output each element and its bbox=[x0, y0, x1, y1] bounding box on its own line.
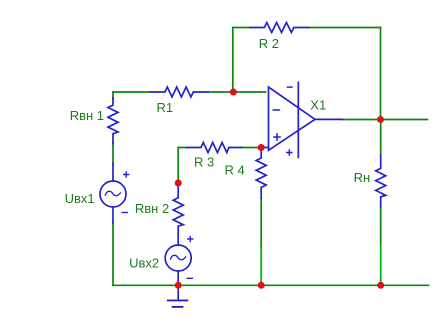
resistor Rn bbox=[376, 155, 386, 208]
polarity minus of Uvx2 bbox=[187, 277, 192, 279]
resistor R2 bbox=[251, 23, 309, 33]
wire bright segment above bottom rail at Rn branch bbox=[380, 246, 382, 285]
op-amp power bar bbox=[297, 82, 299, 157]
svg-text:Uвх2: Uвх2 bbox=[129, 256, 159, 271]
wire below Uvx2 to bottom rail bbox=[177, 282, 179, 286]
svg-text:R 2: R 2 bbox=[259, 36, 279, 51]
wire R1 left bbox=[113, 91, 150, 93]
node inverting input junction bbox=[230, 89, 237, 96]
wire left vertical of feedback loop bbox=[232, 28, 234, 93]
wire bright segment above bottom rail at R4 branch bbox=[261, 246, 381, 285]
wire bottom rail bbox=[113, 284, 429, 286]
source Uvx1 bbox=[100, 164, 129, 224]
polarity minus of Uvx1 bbox=[122, 212, 127, 214]
op-amp X1 bbox=[261, 82, 342, 157]
wire left branch top bbox=[112, 92, 114, 98]
op-amp top minus power label bbox=[288, 86, 292, 88]
polarity plus of Uvx1 bbox=[124, 172, 129, 177]
svg-text:Uвх1: Uвх1 bbox=[65, 191, 95, 206]
wire output node down to Rn bbox=[380, 120, 382, 156]
resistor R3 bbox=[187, 143, 242, 153]
op-amp non-inverting input stub bbox=[261, 147, 268, 149]
svg-text:R 4: R 4 bbox=[225, 163, 245, 178]
wire between Rvn1 and Uvx1 bbox=[112, 144, 114, 164]
svg-text:Rвн 1: Rвн 1 bbox=[70, 108, 104, 123]
source Uvx2 bbox=[165, 237, 193, 282]
op-amp minus input label bbox=[273, 109, 279, 111]
wire output stub to the right bbox=[381, 119, 428, 121]
wire top rail right segment bbox=[309, 27, 381, 29]
ground bbox=[168, 285, 187, 307]
resistor R1 bbox=[150, 87, 208, 97]
node Rn bottom junction bbox=[377, 282, 384, 289]
wire right vertical from top rail to output node bbox=[380, 28, 382, 120]
node ground junction bbox=[175, 282, 182, 289]
node non-inverting input junction bbox=[258, 144, 265, 151]
wire top rail left segment bbox=[113, 28, 429, 286]
wire below R4 bbox=[260, 198, 262, 248]
wire op-amp output to right node bbox=[343, 119, 381, 121]
wire below Rn bbox=[380, 208, 382, 247]
svg-text:R 3: R 3 bbox=[194, 155, 214, 170]
resistor Rvn1 bbox=[108, 98, 118, 144]
wire R1 right to inverting node bbox=[208, 91, 233, 93]
op-amp output lead bbox=[315, 118, 343, 120]
svg-text:Rн: Rн bbox=[354, 170, 371, 185]
node output junction bbox=[377, 116, 384, 123]
op-amp plus input label bbox=[274, 134, 280, 140]
polarity plus of Uvx2 bbox=[188, 237, 193, 242]
wire Rvn2 node stub bbox=[177, 183, 179, 186]
wire inverting node to op-amp minus input bbox=[233, 91, 265, 93]
node R4 bottom junction bbox=[258, 282, 265, 289]
wire below Uvx1 to bottom rail bbox=[112, 223, 114, 285]
svg-text:X1: X1 bbox=[310, 97, 326, 112]
node R3/Rvn2 junction bbox=[175, 180, 182, 187]
wire R3 right to non-inverting node bbox=[242, 147, 261, 149]
resistor Rvn2 bbox=[173, 186, 183, 246]
resistor R4 bbox=[256, 148, 266, 199]
wire R3 corner down to Rvn2 node bbox=[177, 148, 179, 184]
svg-text:R1: R1 bbox=[157, 100, 174, 115]
svg-text:Rвн 2: Rвн 2 bbox=[135, 201, 169, 216]
op-amp bottom plus power label bbox=[287, 150, 292, 155]
wire R3 left lead-in bbox=[178, 147, 187, 149]
